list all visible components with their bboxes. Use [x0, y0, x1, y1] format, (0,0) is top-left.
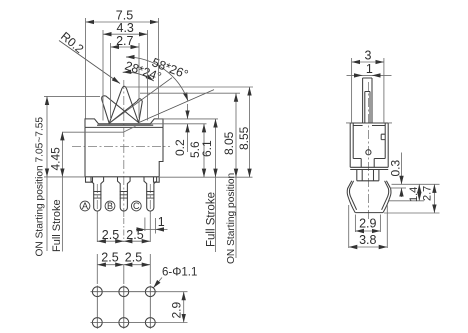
svg-text:4.45: 4.45: [48, 147, 62, 171]
svg-text:1: 1: [158, 215, 165, 229]
svg-text:Full Stroke: Full Stroke: [206, 192, 218, 247]
svg-text:ON Starting position 7.05~7.55: ON Starting position 7.05~7.55: [35, 117, 46, 257]
svg-text:8.55: 8.55: [237, 126, 251, 150]
svg-text:3.8: 3.8: [359, 233, 376, 247]
svg-text:8.05: 8.05: [222, 131, 236, 155]
svg-text:Full Stroke: Full Stroke: [51, 199, 63, 252]
svg-text:6.1: 6.1: [200, 140, 214, 157]
svg-text:0.3: 0.3: [388, 159, 402, 176]
svg-text:4.3: 4.3: [117, 21, 134, 35]
svg-text:2.5: 2.5: [125, 251, 142, 265]
svg-text:ON Starting position: ON Starting position: [226, 173, 237, 264]
svg-text:2.9: 2.9: [170, 301, 184, 318]
svg-text:3: 3: [365, 49, 372, 63]
svg-text:B: B: [107, 201, 113, 211]
svg-text:2.5: 2.5: [101, 251, 118, 265]
svg-text:1: 1: [366, 62, 373, 76]
svg-text:2.7: 2.7: [422, 186, 434, 201]
svg-text:2.5: 2.5: [102, 228, 119, 242]
svg-text:2.7: 2.7: [116, 34, 133, 48]
svg-text:6-Φ1.1: 6-Φ1.1: [162, 267, 197, 279]
svg-text:1.4: 1.4: [408, 187, 420, 202]
svg-text:A: A: [82, 201, 88, 211]
svg-text:C: C: [133, 201, 140, 211]
svg-text:2.5: 2.5: [126, 228, 143, 242]
svg-text:0.2: 0.2: [173, 139, 187, 156]
svg-text:2.9: 2.9: [359, 217, 376, 231]
